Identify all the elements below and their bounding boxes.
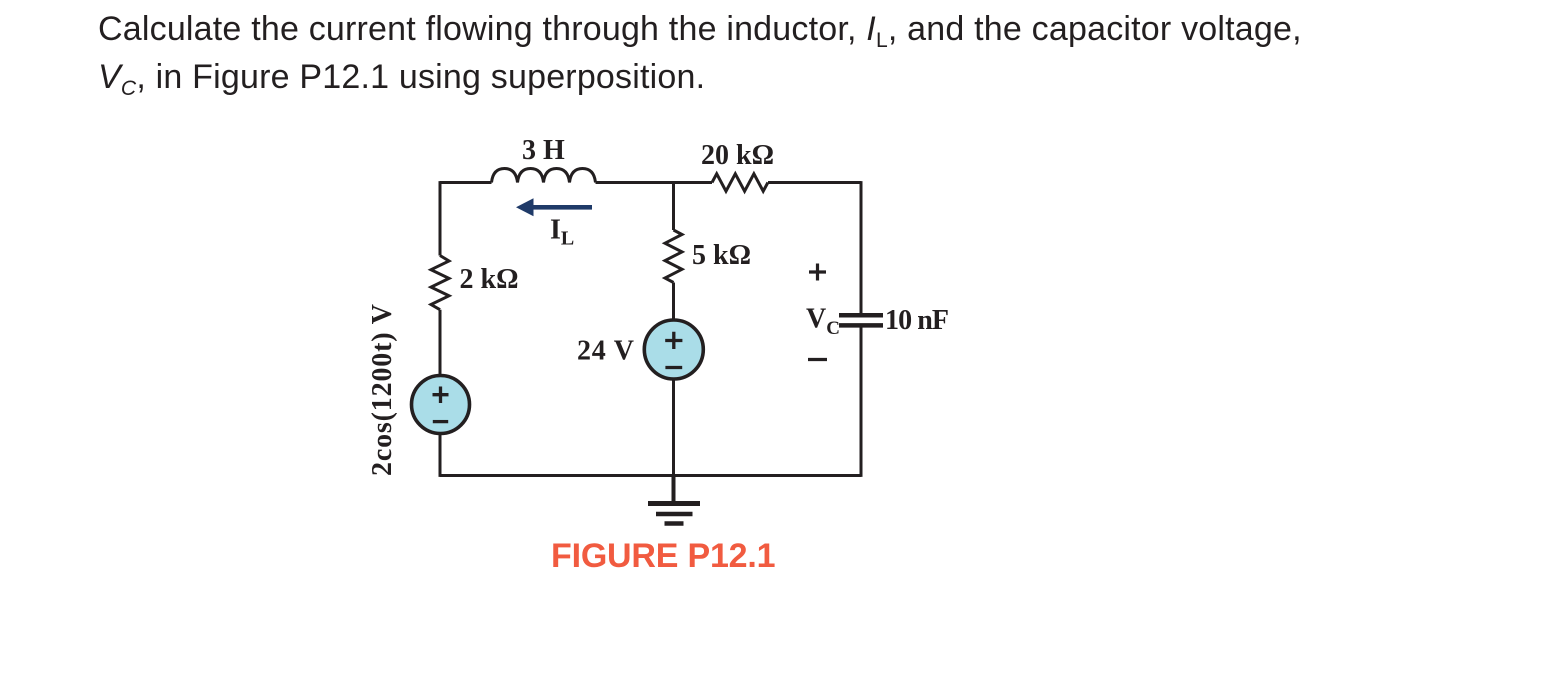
svg-text:IL: IL <box>550 215 574 250</box>
wire middle between resistor and source <box>672 283 675 321</box>
svg-text:VC: VC <box>806 304 840 340</box>
wire right lower <box>860 327 863 477</box>
V1 minus sign <box>433 420 448 423</box>
capacitor C 10 nF plates <box>839 315 883 325</box>
inductor 3 H <box>492 169 596 183</box>
resistor 5 kOhm <box>665 230 682 283</box>
svg-text:2 kΩ: 2 kΩ <box>460 264 519 295</box>
svg-text:3 H: 3 H <box>522 135 565 166</box>
resistor 2 kOhm <box>431 256 449 310</box>
svg-text:24 V: 24 V <box>577 336 634 367</box>
wire bottom <box>440 474 861 477</box>
wire left upper <box>439 181 442 255</box>
capacitor minus sign <box>808 358 827 361</box>
wire top-right segment <box>768 181 861 184</box>
svg-text:20 kΩ: 20 kΩ <box>701 140 774 171</box>
voltage source V2 24 V circle <box>644 320 703 379</box>
capacitor plus sign <box>809 264 826 281</box>
V2 plus sign <box>665 332 682 349</box>
resistor 20 kOhm <box>712 174 768 191</box>
wire middle upper <box>672 183 675 231</box>
V1 plus sign <box>433 387 449 404</box>
wire left lower <box>439 435 442 477</box>
ground stem <box>672 476 676 504</box>
wire left middle <box>439 310 442 377</box>
svg-text:10 nF: 10 nF <box>885 305 949 336</box>
problem statement text <box>98 8 1302 103</box>
figure caption <box>551 537 775 576</box>
voltage source V1 2cos(1200t) V circle <box>412 376 470 434</box>
svg-text:5 kΩ: 5 kΩ <box>692 240 751 271</box>
wire top-left segment <box>440 181 492 184</box>
wire middle below source <box>672 380 675 476</box>
svg-text:2cos(1200t) V: 2cos(1200t) V <box>367 304 398 476</box>
ground bars <box>648 476 700 524</box>
wire top-middle segment <box>596 181 713 184</box>
V2 minus sign <box>665 366 682 369</box>
current arrow IL <box>516 198 592 216</box>
wire right upper <box>860 181 863 313</box>
